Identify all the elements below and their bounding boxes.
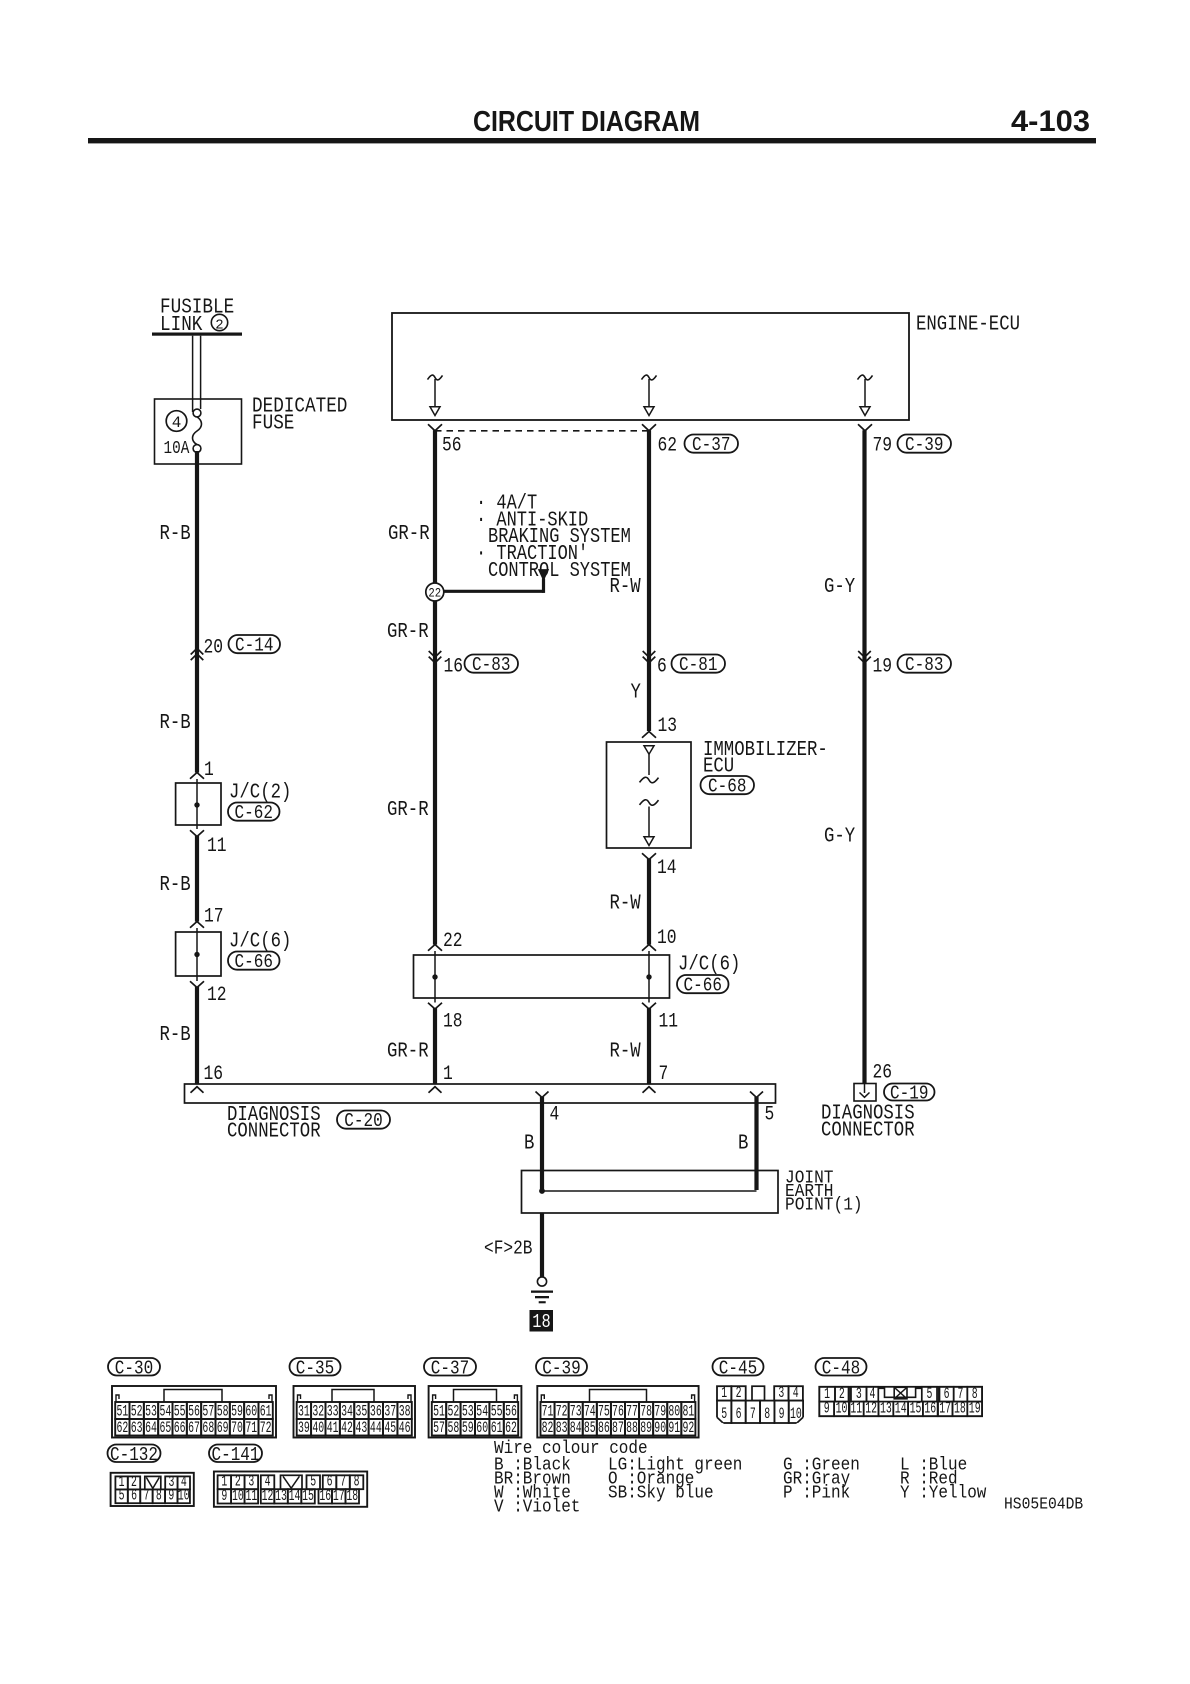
circled junction number 22 [426,583,444,601]
svg-text:91: 91 [668,1419,680,1437]
label 18 pin [443,1011,463,1034]
connector table C-141 [214,1472,367,1507]
wire R-W immobilizer to J/C(6) bus [647,859,651,945]
svg-text:11: 11 [659,1011,679,1034]
svg-text:77: 77 [626,1402,638,1420]
svg-text:GR-R: GR-R [387,621,429,644]
label B 1 [524,1133,534,1156]
svg-text:R-W: R-W [610,893,642,916]
label R-W 3 [610,1041,642,1064]
svg-text:61: 61 [491,1419,503,1437]
wire B pin5 to earth point [754,1097,758,1190]
svg-text:59: 59 [462,1419,474,1437]
svg-text:82: 82 [542,1419,554,1437]
svg-text:R-B: R-B [160,874,191,897]
svg-text:89: 89 [640,1419,652,1437]
svg-text:17: 17 [333,1487,345,1505]
svg-text:GR-R: GR-R [388,523,430,546]
earth junction dot [539,1188,545,1194]
svg-text:58: 58 [217,1402,229,1420]
svg-text:R-B: R-B [160,1024,191,1047]
svg-text:88: 88 [626,1419,638,1437]
svg-text:R-B: R-B [160,523,191,546]
svg-text:C-83: C-83 [472,654,510,676]
svg-text:62: 62 [658,435,678,458]
label R-B 1 [160,523,191,546]
connector table C-37 [429,1386,522,1438]
connector pill C-20 [337,1110,390,1132]
circled fuse number 4 [166,411,187,432]
svg-text:16: 16 [444,656,464,679]
junction box J/C(6) C-66 left [176,928,221,981]
harness connector C-83 chevrons [429,651,442,663]
svg-text:19: 19 [873,656,893,679]
svg-text:9: 9 [824,1399,830,1417]
svg-text:6: 6 [657,656,667,679]
label DEDICATED FUSE [252,396,347,436]
junction box J/C(2) C-62 [176,779,221,829]
label DIAGNOSIS CONNECTOR left [227,1104,321,1144]
svg-text:52: 52 [448,1402,460,1420]
svg-text:52: 52 [131,1402,143,1420]
svg-text:55: 55 [174,1402,186,1420]
svg-text:72: 72 [260,1419,272,1437]
earth point number 18 tag [530,1310,554,1333]
fusible link bus bar [152,333,242,336]
label JOINT EARTH POINT(1) [785,1169,863,1216]
svg-text:9: 9 [221,1487,227,1505]
svg-text:GR-R: GR-R [387,799,429,822]
svg-text:Y: Y [631,682,642,705]
svg-text:41: 41 [327,1419,339,1437]
svg-text:4: 4 [550,1104,560,1127]
svg-text:13: 13 [880,1399,892,1417]
svg-text:C-14: C-14 [235,635,273,657]
svg-text:85: 85 [584,1419,596,1437]
svg-text:C-30: C-30 [115,1357,153,1379]
svg-text:86: 86 [598,1419,610,1437]
connector table C-45 [716,1384,805,1425]
svg-text:5: 5 [721,1405,727,1423]
svg-text:R-W: R-W [610,1041,642,1064]
label IMMOBILIZER-ECU [703,739,828,779]
svg-text:11: 11 [245,1487,257,1505]
svg-text:84: 84 [570,1419,582,1437]
svg-text:16: 16 [204,1063,224,1086]
svg-text:78: 78 [640,1402,652,1420]
svg-text:CIRCUIT DIAGRAM: CIRCUIT DIAGRAM [473,106,700,138]
svg-text:C-35: C-35 [296,1357,334,1379]
svg-text:14: 14 [289,1487,301,1505]
svg-text:58: 58 [448,1419,460,1437]
svg-text:79: 79 [873,435,893,458]
svg-text:64: 64 [145,1419,157,1437]
svg-text:40: 40 [312,1419,324,1437]
svg-text:1: 1 [204,759,214,782]
label GR-R 4 [387,1041,429,1064]
label 1 pin diagnosis [443,1063,453,1086]
svg-text:56: 56 [505,1402,517,1420]
wire to ground [540,1213,544,1277]
fork into J/C(6) bus [428,945,442,951]
label GR-R 1 [388,523,430,546]
svg-text:POINT(1): POINT(1) [785,1196,863,1216]
svg-text:9: 9 [779,1405,785,1423]
fork into left J/C(6) [190,922,204,928]
label 17 pin [204,906,224,929]
svg-text:5: 5 [119,1487,125,1505]
svg-text:2: 2 [215,318,223,334]
label J/C(6) bus [678,954,740,977]
fork out of left J/C(6) [190,981,204,987]
connector pill C-83 right [898,654,952,676]
svg-text:35: 35 [356,1402,368,1420]
fork leaving ECU [428,424,442,431]
connector pill C-48 [816,1357,867,1379]
double-line wire from fusible link to fuse [193,336,201,412]
svg-text:62: 62 [116,1419,128,1437]
label Y wire colour [631,682,642,705]
svg-text:18: 18 [443,1011,463,1034]
wire colour code legend [494,1439,987,1518]
label 22 pin [443,930,463,953]
svg-text:80: 80 [668,1402,680,1420]
diagram code HS05E04DB [1004,1496,1083,1515]
immobilizer internal pin bottom [640,800,659,846]
wire G-Y from ECU pin 79 [862,430,866,1084]
engine ECU box [392,313,909,420]
svg-text:C-81: C-81 [679,654,717,676]
svg-text:19: 19 [969,1399,981,1417]
connector table C-35 [294,1386,416,1438]
label 12 pin [207,984,227,1007]
dedicated fuse box [155,399,242,464]
svg-text:3: 3 [778,1384,784,1402]
svg-text:65: 65 [159,1419,171,1437]
label 14 pin [657,857,677,880]
svg-text:69: 69 [217,1419,229,1437]
connector pill C-66 bus [677,975,729,997]
svg-text:6: 6 [736,1405,742,1423]
svg-text:16: 16 [924,1399,936,1417]
svg-text:83: 83 [556,1419,568,1437]
svg-text:C-132: C-132 [110,1444,158,1466]
label 5 pin [765,1104,775,1127]
svg-text:18: 18 [532,1311,550,1333]
connector pill C-39 [898,434,952,456]
label R-W 2 [610,893,642,916]
svg-text:54: 54 [476,1402,488,1420]
header rule [88,138,1096,143]
svg-text:70: 70 [231,1419,243,1437]
label GR-R 2 [387,621,429,644]
label G-Y 1 [824,576,856,599]
wire R-B to diagnosis connector [195,987,199,1085]
svg-text:51: 51 [116,1402,128,1420]
svg-text:66: 66 [174,1419,186,1437]
svg-text:J/C(2): J/C(2) [229,782,291,805]
svg-text:10A: 10A [164,439,190,459]
svg-text:75: 75 [598,1402,610,1420]
label 16 C-83 [444,656,464,679]
svg-text:B: B [738,1133,748,1156]
diagnosis connector C-20 box [185,1084,776,1103]
svg-text:44: 44 [370,1419,382,1437]
connector pill C-81 [672,654,726,676]
connector pill C-14 [229,635,281,657]
svg-text:14: 14 [895,1399,907,1417]
svg-text:10: 10 [836,1399,848,1417]
label 10 pin [657,927,677,950]
ECU internal pin symbol pin 79 [858,375,873,415]
svg-text:15: 15 [910,1399,922,1417]
svg-text:17: 17 [939,1399,951,1417]
svg-text:62: 62 [505,1419,517,1437]
label 13 pin [658,715,678,738]
label 1 pin into J/C(2) [204,759,214,782]
diagnosis connector C-19 terminal box [854,1084,876,1102]
label 7 pin diagnosis [659,1063,669,1086]
fork pin 1 [429,1087,442,1093]
label 26 pin [873,1062,893,1085]
svg-text:4-103: 4-103 [1011,105,1090,138]
connector pill C-62 [228,802,280,824]
svg-text:R-B: R-B [160,712,191,735]
connector pill C-45 [713,1357,764,1379]
svg-text:V :Violet: V :Violet [494,1498,580,1518]
wire GR-R to diagnosis connector [433,1008,437,1084]
fork pin 16 [191,1087,204,1093]
svg-text:68: 68 [202,1419,214,1437]
label ENGINE-ECU [916,314,1020,337]
wire R-W from ECU pin 62 [647,430,651,731]
wire R-B J/C(2) to J/C(6) [195,836,199,922]
svg-text:C-48: C-48 [822,1357,860,1379]
svg-text:92: 92 [682,1419,694,1437]
connector table C-39 [537,1386,698,1438]
svg-text:18: 18 [346,1487,358,1505]
fork pin 4 leaving [536,1092,549,1098]
svg-text:26: 26 [873,1062,893,1085]
svg-text:C-37: C-37 [692,434,730,456]
svg-text:18: 18 [954,1399,966,1417]
fuse F4 symbol [193,409,202,452]
connector pill C-68 [701,776,755,798]
page number 4-103 [1011,105,1090,138]
immobilizer ECU box [607,742,692,848]
svg-text:C-68: C-68 [708,776,746,798]
harness connector C-83 right chevrons [858,651,871,663]
svg-text:11: 11 [207,835,227,858]
label R-B 2 [160,712,191,735]
fork out of bus left [428,1003,442,1009]
label R-W 1 [610,576,642,599]
page title CIRCUIT DIAGRAM [473,106,700,138]
fork leaving ECU [858,424,872,431]
svg-text:90: 90 [654,1419,666,1437]
label GR-R 3 [387,799,429,822]
junction box J/C(6) C-66 bus [414,951,670,1003]
fork pin 7 [643,1087,656,1093]
fork into bus right [642,945,656,951]
svg-text:12: 12 [865,1399,877,1417]
svg-text:FUSE: FUSE [252,413,294,436]
svg-text:53: 53 [462,1402,474,1420]
svg-text:CONNECTOR: CONNECTOR [227,1121,321,1144]
connector pill C-35 [290,1357,341,1379]
connector table C-132 [111,1473,194,1506]
svg-text:12: 12 [262,1487,274,1505]
svg-text:54: 54 [159,1402,171,1420]
svg-text:C-39: C-39 [905,434,943,456]
dashed bus line below ECU [435,430,649,432]
svg-text:16: 16 [319,1487,331,1505]
svg-text:33: 33 [327,1402,339,1420]
svg-text:7: 7 [750,1405,756,1423]
label 79 [873,435,893,458]
joint earth point box [522,1171,779,1214]
svg-text:63: 63 [131,1419,143,1437]
svg-text:15: 15 [302,1487,314,1505]
fork pin 5 leaving [750,1092,763,1098]
connector pill C-37 table [424,1357,476,1379]
label (F)2B [484,1238,533,1260]
connector pill C-30 [108,1357,160,1379]
svg-text:Y :Yellow: Y :Yellow [900,1484,987,1504]
connector pill C-19 [884,1083,935,1105]
svg-text:P :Pink: P :Pink [783,1484,850,1504]
wire B pin4 to earth point [540,1097,544,1192]
svg-text:R-W: R-W [610,576,642,599]
ECU internal pin symbol pin 56 [428,375,443,415]
svg-text:1: 1 [721,1384,727,1402]
svg-text:34: 34 [341,1402,353,1420]
svg-text:53: 53 [145,1402,157,1420]
svg-text:7: 7 [144,1487,150,1505]
svg-text:31: 31 [298,1402,310,1420]
wire R-W to diagnosis connector [647,1008,651,1084]
connector pill C-83 [465,654,519,676]
label 19 C-83 [873,656,893,679]
svg-text:67: 67 [188,1419,200,1437]
svg-text:C-66: C-66 [235,951,273,973]
fork out of immobilizer [642,853,656,859]
svg-text:46: 46 [399,1419,411,1437]
svg-text:C-66: C-66 [684,975,722,997]
label 62 [658,435,678,458]
label R-B 4 [160,1024,191,1047]
svg-text:7: 7 [659,1063,669,1086]
svg-text:4: 4 [172,414,182,432]
svg-text:C-45: C-45 [719,1357,757,1379]
svg-text:59: 59 [231,1402,243,1420]
svg-text:55: 55 [491,1402,503,1420]
fork into immobilizer ECU [642,732,656,738]
label FUSIBLE LINK (2) [160,297,234,338]
svg-text:57: 57 [202,1402,214,1420]
svg-text:81: 81 [682,1402,694,1420]
svg-text:<F>2B: <F>2B [484,1238,533,1260]
svg-text:38: 38 [399,1402,411,1420]
svg-text:8: 8 [764,1405,770,1423]
svg-text:SB:Sky blue: SB:Sky blue [608,1484,714,1504]
svg-text:5: 5 [765,1104,775,1127]
svg-text:13: 13 [658,715,678,738]
svg-text:C-37: C-37 [431,1357,469,1379]
svg-text:87: 87 [612,1419,624,1437]
svg-text:51: 51 [433,1402,445,1420]
svg-text:42: 42 [341,1419,353,1437]
svg-text:56: 56 [188,1402,200,1420]
svg-text:32: 32 [312,1402,324,1420]
svg-text:10: 10 [232,1487,244,1505]
connector pill C-37 [685,434,739,456]
connector table C-48 [819,1385,982,1418]
svg-text:CONNECTOR: CONNECTOR [821,1120,915,1143]
wire GR-R from ECU pin 56 [433,430,437,944]
label 11 pin [207,835,227,858]
fork into J/C(2) [190,773,204,779]
svg-text:74: 74 [584,1402,596,1420]
label 4 pin [550,1104,560,1127]
svg-text:76: 76 [612,1402,624,1420]
svg-text:G-Y: G-Y [824,826,856,849]
ground symbol [531,1277,553,1303]
svg-text:71: 71 [542,1402,554,1420]
svg-text:60: 60 [476,1419,488,1437]
harness connector C-14 chevrons [191,648,204,660]
earth bus link line [542,1190,757,1192]
svg-text:36: 36 [370,1402,382,1420]
svg-text:17: 17 [204,906,224,929]
svg-text:14: 14 [657,857,677,880]
svg-text:61: 61 [260,1402,272,1420]
label 11 pin bus [659,1011,679,1034]
ECU internal pin symbol pin 62 [642,375,657,415]
connector pill C-141 [209,1444,262,1466]
svg-text:1: 1 [443,1063,453,1086]
label 6 C-81 [657,656,667,679]
svg-text:C-39: C-39 [542,1357,580,1379]
svg-text:60: 60 [245,1402,257,1420]
fork leaving ECU [642,424,656,431]
label 16 pin diagnosis [204,1063,224,1086]
svg-text:20: 20 [204,637,224,660]
svg-text:13: 13 [275,1487,287,1505]
svg-text:J/C(6): J/C(6) [678,954,740,977]
svg-text:4: 4 [793,1384,799,1402]
svg-text:HS05E04DB: HS05E04DB [1004,1496,1083,1515]
system usage note list [476,493,631,584]
svg-text:9: 9 [168,1487,174,1505]
svg-text:43: 43 [356,1419,368,1437]
label 56 [442,435,462,458]
svg-text:C-83: C-83 [905,654,943,676]
svg-text:10: 10 [178,1487,190,1505]
svg-text:C-62: C-62 [235,802,273,824]
label DIAGNOSIS CONNECTOR right [821,1103,915,1143]
svg-text:C-141: C-141 [212,1444,260,1466]
svg-text:10: 10 [657,927,677,950]
label 10A [164,439,190,459]
harness connector C-81 chevrons [643,651,656,663]
label G-Y 2 [824,826,856,849]
fork out of J/C(2) [190,830,204,836]
svg-text:72: 72 [556,1402,568,1420]
fork out of bus right [642,1003,656,1009]
svg-text:2: 2 [736,1384,742,1402]
svg-text:22: 22 [428,586,441,601]
